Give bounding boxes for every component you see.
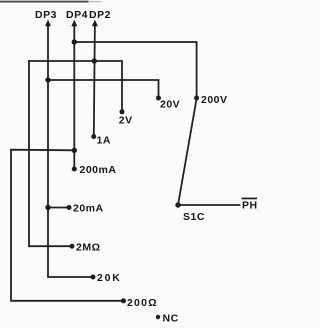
wire 2V row from vertical bus B <box>29 61 122 112</box>
wire 20V row from DP3 junction <box>48 80 159 98</box>
wire vertical bus B down to 2M ohm terminal <box>29 61 72 246</box>
junction dot DP2 / 2V row <box>92 58 97 63</box>
svg-text:DP2: DP2 <box>89 9 111 21</box>
svg-text:20K: 20K <box>97 272 122 284</box>
svg-text:1A: 1A <box>97 135 111 147</box>
node 200 ohm terminal dot <box>121 298 126 303</box>
wire 20mA branch from DP3 <box>48 207 69 209</box>
junction dot DP3 / 20mA branch <box>45 205 50 210</box>
node 2M ohm terminal dot <box>70 244 75 249</box>
arrow terminal DP2 <box>92 20 98 27</box>
svg-text:2V: 2V <box>119 115 133 127</box>
node 1A terminal dot <box>91 134 96 139</box>
svg-text:PH: PH <box>242 200 258 212</box>
wire 200 ohm feed: DP4 junction left and down bus A to terminal <box>11 150 124 301</box>
svg-text:20V: 20V <box>160 99 180 111</box>
wire DP4 vertical down to 200mA terminal <box>73 23 75 169</box>
junction dot DP3 / 20V row <box>45 77 50 82</box>
svg-text:DP3: DP3 <box>35 9 57 21</box>
node 20V terminal dot <box>156 96 161 101</box>
node 20mA terminal dot <box>67 205 72 210</box>
node 20K terminal dot <box>91 275 96 280</box>
svg-text:NC: NC <box>163 313 179 325</box>
svg-text:S1C: S1C <box>183 211 205 223</box>
svg-text:200mA: 200mA <box>80 164 117 176</box>
node 200mA terminal dot <box>72 167 77 172</box>
junction dot DP4 / 200 ohm feed <box>72 148 77 153</box>
node 200V terminal dot <box>194 96 199 101</box>
junction dot DP4 / 200V row <box>72 39 77 44</box>
svg-text:20mA: 20mA <box>73 203 104 215</box>
node S1C wiper dot <box>175 202 180 207</box>
wire switch S1C wiper diagonal from 200V node <box>178 99 197 206</box>
node NC bullet <box>156 315 160 319</box>
wire DP2 vertical down to 1A terminal <box>94 23 95 137</box>
svg-text:200V: 200V <box>201 94 228 106</box>
arrow terminal DP4 <box>71 20 77 27</box>
wire DP3 vertical down to 20K branch <box>48 23 93 277</box>
wire switch common to PH line <box>178 204 240 206</box>
svg-text:DP4: DP4 <box>66 9 88 21</box>
wire 200V row from DP4 junction <box>74 42 196 98</box>
label PH overline bar <box>242 198 258 200</box>
svg-text:2MΩ: 2MΩ <box>76 242 101 254</box>
arrow terminal DP3 <box>45 20 51 27</box>
svg-text:200Ω: 200Ω <box>127 297 158 309</box>
node 2V terminal dot <box>120 109 125 114</box>
